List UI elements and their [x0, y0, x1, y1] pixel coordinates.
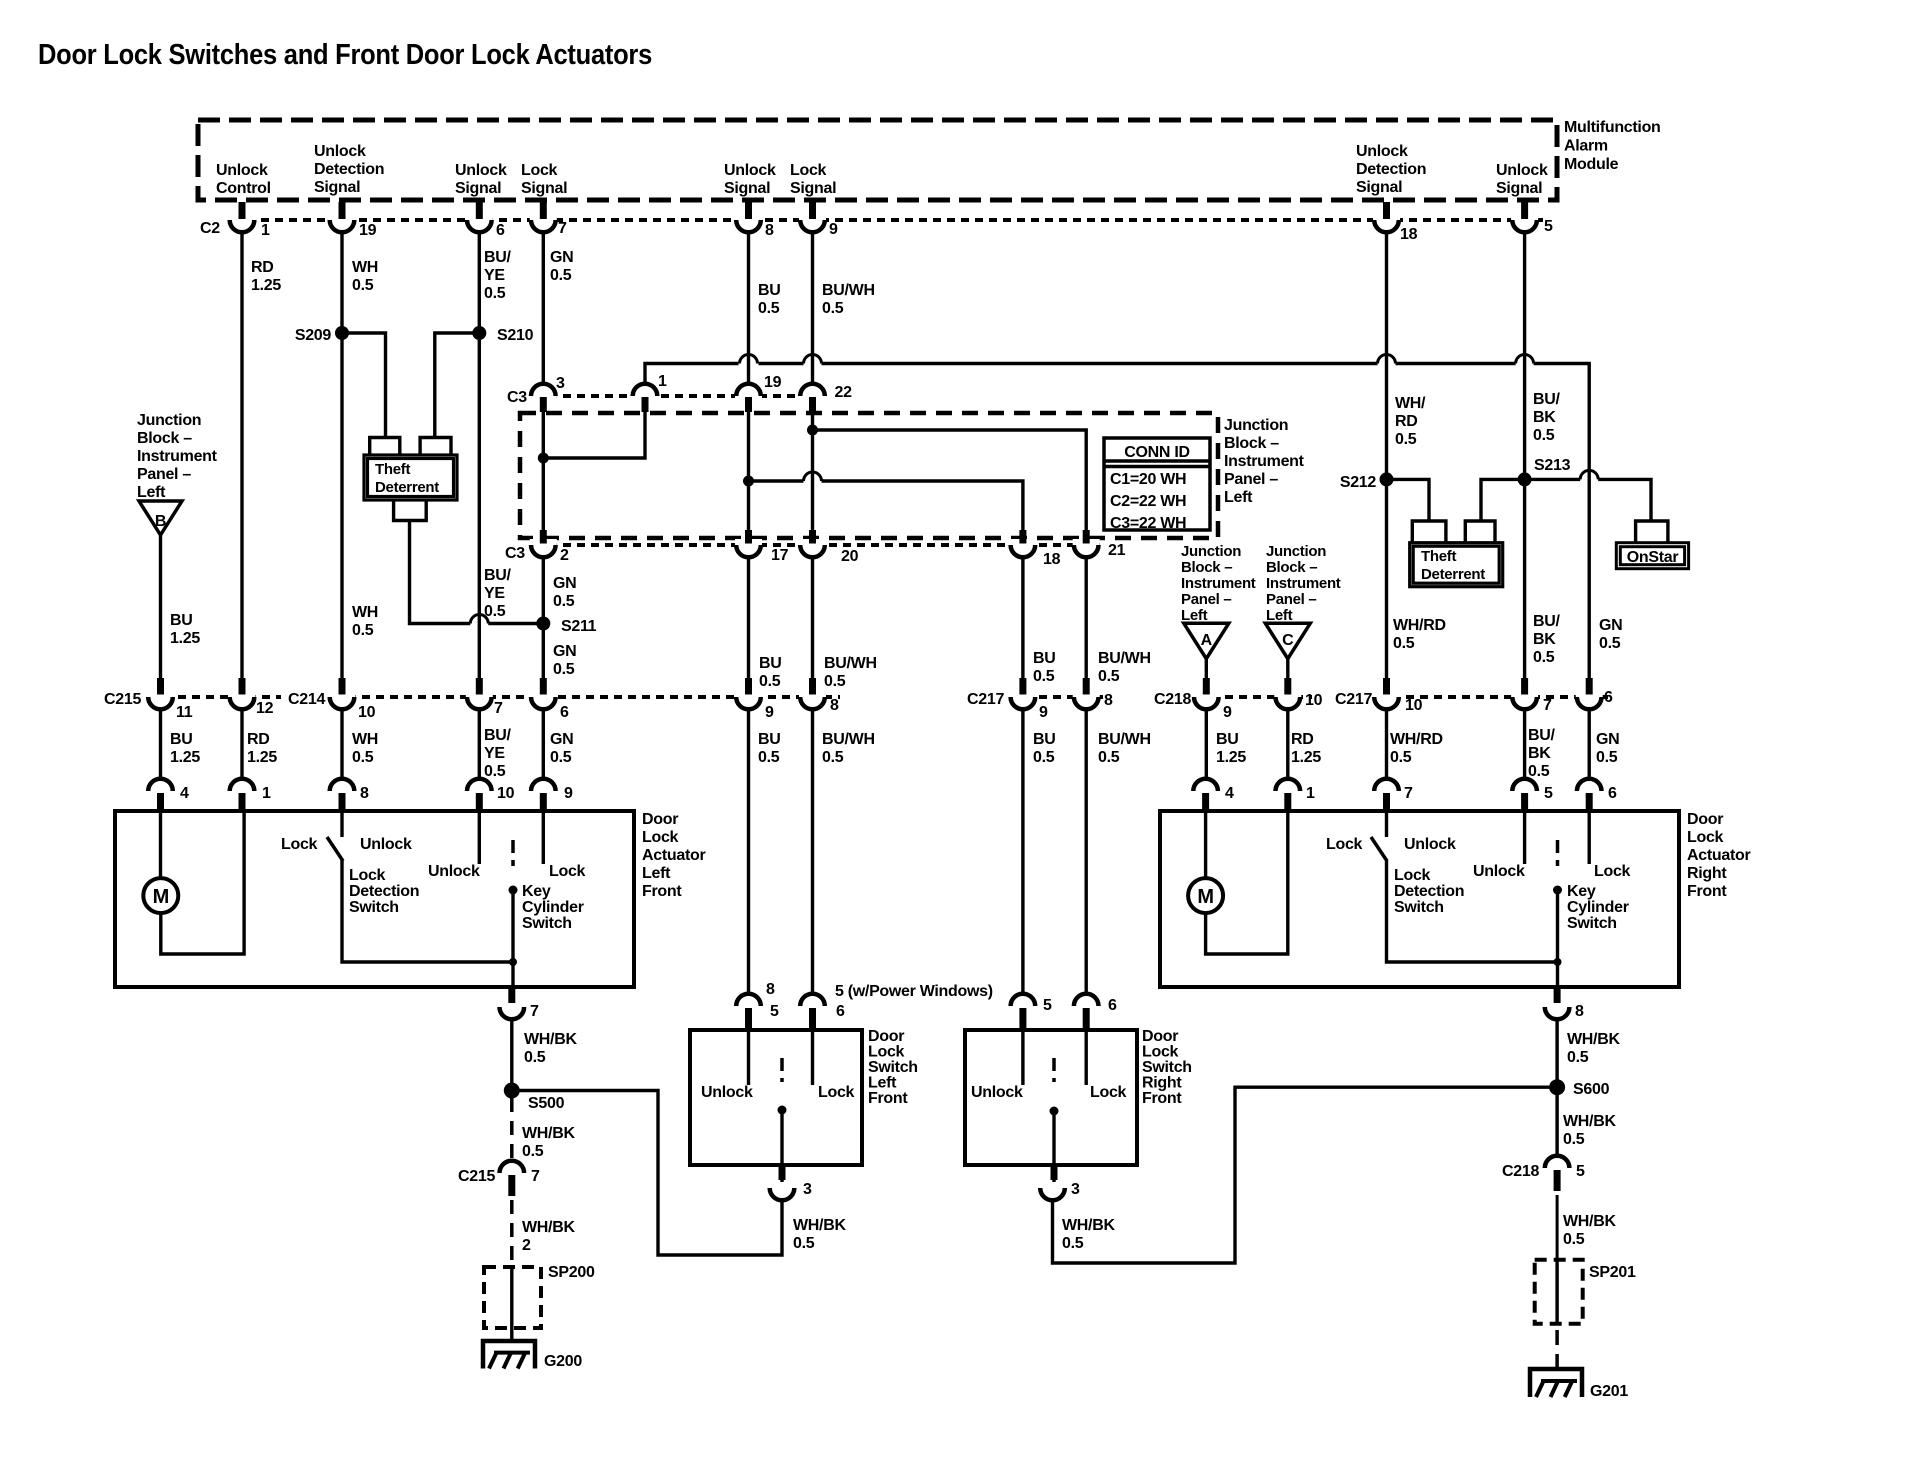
svg-text:11: 11 [176, 704, 193, 721]
label WH 0.5 [352, 731, 378, 766]
svg-text:GN0.5: GN0.5 [553, 575, 576, 610]
wire lock detection switch to key cylinder common left [342, 860, 513, 962]
label Lock Detection Switch right [1394, 867, 1464, 916]
svg-text:C3=22 WH: C3=22 WH [1110, 515, 1186, 532]
svg-text:C2: C2 [200, 220, 220, 237]
wire GN 0.5 from C2-7 to C3-3 [542, 232, 545, 386]
svg-text:S213: S213 [1534, 457, 1571, 474]
svg-text:Lock: Lock [281, 836, 318, 853]
splice pack SP200 dashed box [484, 1267, 541, 1328]
label C3 row 1 [507, 389, 527, 406]
svg-text:C215: C215 [104, 691, 141, 708]
label BU/YE 0.5 [484, 727, 512, 780]
svg-text:Lock: Lock [549, 863, 586, 880]
label Door Lock Actuator Right Front [1687, 811, 1750, 900]
label Unlock (blade right) [1404, 836, 1456, 853]
connector C2 pin 19 [329, 202, 377, 239]
wire BU 1.25 C218-9 to actuator right pin 4 [1205, 709, 1208, 780]
connector door lock switch left pin 3 [770, 1167, 812, 1200]
actuator left pin 4 [148, 779, 189, 810]
svg-text:S600: S600 [1573, 1081, 1610, 1098]
junction block grid C triangle [1265, 623, 1310, 658]
connector row3 pin 9 at x=1022.9 [1009, 678, 1048, 721]
svg-text:C3: C3 [507, 389, 527, 406]
connector row dotted line C218 [1197, 695, 1312, 699]
wire WH/BK 0.5 actuator right to S600 [1555, 1019, 1558, 1088]
connector row3 pin 10 at x=1287.8 [1274, 678, 1322, 709]
wire RD 1.25 from C2-1 to C215-12 [240, 232, 243, 691]
connector row3 pin 9 at x=748.5 [735, 678, 774, 721]
wire BU/YE 0.5 C214-7 to actuator left pin 10 [478, 709, 481, 780]
connector C3 row2 pin 21 [1073, 530, 1126, 559]
wire motor loop right [1206, 811, 1288, 954]
svg-text:22: 22 [835, 384, 853, 401]
label Lock (blade left) [281, 836, 318, 853]
svg-text:3: 3 [556, 375, 565, 392]
svg-text:6: 6 [1604, 689, 1613, 706]
svg-text:Unlock: Unlock [1404, 836, 1456, 853]
label C214 [288, 691, 325, 708]
connector actuator right pin 8 [1545, 989, 1584, 1020]
svg-text:7: 7 [1404, 785, 1413, 802]
svg-text:SP200: SP200 [548, 1264, 595, 1281]
connector C215 pin 7 [458, 1161, 540, 1196]
junction block grid B triangle [139, 501, 182, 535]
connector C2 pin 6 [466, 202, 505, 239]
svg-text:2: 2 [560, 547, 569, 564]
wire inside junction block dot to pin1 [543, 398, 645, 458]
svg-text:7: 7 [558, 220, 567, 237]
svg-text:G200: G200 [544, 1353, 582, 1370]
svg-text:GN0.5: GN0.5 [550, 731, 573, 766]
label Unlock Detection Signal [314, 143, 384, 196]
connector C218 pin 5 [1502, 1156, 1585, 1191]
wire S213 to OnStar cavity [1525, 470, 1651, 521]
junction block grid A triangle [1184, 623, 1229, 658]
svg-text:5: 5 [1576, 1163, 1585, 1180]
label WH/RD 0.5 [1390, 731, 1443, 766]
connector row3 pin 11 at x=160.5 [147, 678, 193, 721]
label BU 0.5 [758, 731, 781, 766]
label CONN ID [1124, 444, 1189, 461]
svg-text:M: M [1197, 886, 1213, 908]
label Unlock (blade left) [360, 836, 412, 853]
wire actuator right pin 7 to lock detection switch [1385, 811, 1388, 837]
svg-text:4: 4 [180, 785, 189, 802]
connector C3 row2 pin 20 [799, 530, 859, 565]
label BU/BK 0.5 below S213 [1533, 613, 1561, 666]
label Unlock Control [216, 162, 271, 197]
wire inside junction block pin3 to pin2 vertical [542, 398, 545, 541]
wire key cylinder common left [511, 890, 514, 962]
svg-text:C218: C218 [1154, 691, 1191, 708]
connector door lock switch left pin 6 [800, 994, 845, 1028]
wire S212 to theft deterrent right cavity 1 [1387, 479, 1430, 521]
wire WH/BK 0.5 S500 to C215-7 (dashed) [510, 1098, 514, 1160]
splice S500 [504, 1083, 565, 1113]
wire BU/WH 0.5 C217-8 to door lock switch right pin 6 [1084, 709, 1087, 995]
label Lock switch left [818, 1084, 855, 1101]
svg-text:C218: C218 [1502, 1163, 1539, 1180]
theft deterrent left cavity 1 [370, 438, 400, 456]
label C215 [104, 691, 141, 708]
wire GN 0.5 C214-6 to actuator left pin 9 [542, 709, 545, 780]
svg-text:G201: G201 [1590, 1383, 1628, 1400]
connector door lock switch left pin 5 [736, 994, 779, 1028]
door lock switch right front box [965, 1030, 1137, 1165]
motor M right actuator [1188, 878, 1223, 913]
key cylinder switch lever right (dashed) [1556, 840, 1560, 866]
label Unlock Signal (pin 5) [1496, 162, 1548, 197]
connector row3 pin 8 at x=812.5 [799, 678, 839, 714]
door lock actuator right front box [1160, 811, 1679, 987]
label SP201 [1589, 1264, 1636, 1281]
svg-text:Door Lock Switches and Front D: Door Lock Switches and Front Door Lock A… [38, 39, 652, 71]
lock detection switch blade right [1371, 837, 1387, 861]
label WH/BK 0.5 below actuator right [1567, 1031, 1620, 1066]
svg-text:C217: C217 [1335, 691, 1372, 708]
wire switch left lock contact [811, 1030, 814, 1085]
theft deterrent module left box [364, 455, 457, 500]
svg-text:8: 8 [765, 222, 774, 239]
wire BU/WH 0.5 C3-21 to C217-8 [1084, 557, 1087, 691]
label Lock Detection Switch left [349, 867, 419, 916]
wire WH/BK 0.5 C218-5 to SP201 [1556, 1195, 1559, 1260]
wire BU/BK 0.5 from C2-5 to C217-7 [1523, 232, 1526, 691]
wire BU/YE 0.5 from C2-6 to C214-7 [478, 232, 481, 691]
svg-text:BU0.5: BU0.5 [758, 282, 781, 317]
wire BU 0.5 C3-18 to C217-9 [1021, 557, 1024, 691]
connector row3 pin 6 at x=543.3 [530, 678, 569, 721]
wire BU 0.5 C3-17 to C214-9 [747, 557, 750, 691]
wire through SP201 [1555, 1260, 1558, 1324]
connector C3 row 1 dotted line [535, 394, 826, 398]
label WH 0.5 upper [352, 604, 378, 639]
wire BU 0.5 from C2-8 to C3-19 [747, 232, 750, 386]
wire GN 0.5 theft deterrent to S211 [410, 521, 544, 624]
connector row3 pin 9 at x=1206.3 [1193, 678, 1232, 721]
wire BU/WH 0.5 C3-20 to C214-8 [811, 557, 814, 691]
svg-text:4: 4 [1225, 785, 1234, 802]
label WH/BK 2 [522, 1219, 575, 1254]
connector row3 pin 10 at x=342 [329, 678, 376, 721]
connector row dotted line C214 [334, 695, 840, 699]
label BU/WH 0.5 right pair [1098, 650, 1151, 685]
actuator left pin 8 [330, 779, 369, 810]
svg-text:9: 9 [765, 704, 774, 721]
label C3=22 WH [1110, 515, 1186, 532]
label SP200 [548, 1264, 595, 1281]
node switch left pivot [778, 1106, 787, 1115]
connector C3 pin 19 [735, 374, 782, 412]
svg-text:C217: C217 [967, 691, 1004, 708]
svg-text:7: 7 [530, 1003, 539, 1020]
node junction dot on pin3 wire [538, 453, 549, 464]
label Theft Deterrent left [375, 461, 439, 496]
svg-text:5: 5 [1544, 785, 1553, 802]
svg-text:B: B [155, 513, 166, 530]
svg-text:6: 6 [496, 222, 505, 239]
label GN 0.5 above S211 [553, 575, 576, 610]
splice S209 [295, 326, 349, 344]
svg-text:GN0.5: GN0.5 [1596, 731, 1619, 766]
svg-text:8: 8 [1575, 1003, 1584, 1020]
label Lock Signal (pin 7) [521, 162, 567, 197]
svg-text:Unlock: Unlock [1473, 863, 1525, 880]
wire WH 0.5 from C2-19 to C214-10 [340, 232, 343, 691]
connector actuator left pin 7 [500, 989, 540, 1020]
svg-text:1: 1 [261, 222, 270, 239]
label GN 0.5 right column [1599, 617, 1622, 652]
wire key cylinder common to actuator right pin 8 [1556, 962, 1559, 1000]
label BU/BK 0.5 [1533, 391, 1561, 444]
switch right lever (dashed) [1052, 1058, 1056, 1082]
label BU 1.25 above C215 [170, 612, 200, 647]
connector door lock switch right pin 3 [1040, 1167, 1080, 1200]
svg-text:S500: S500 [528, 1095, 565, 1112]
wire BU 1.25 C215-11 to actuator left pin 4 [159, 709, 162, 780]
label Junction Block - Instrument Panel - Left (center) [1224, 417, 1305, 506]
connector C2 pin 1 [229, 202, 271, 239]
wire actuator right pin 5 unlock contact [1523, 811, 1526, 864]
svg-text:10: 10 [358, 704, 376, 721]
svg-text:C3: C3 [505, 545, 525, 562]
label BU 0.5 right pair [1033, 650, 1056, 685]
label Junction Block - Instrument Panel - Left (C) [1266, 543, 1341, 624]
node junction key cylinder / lock detection left [509, 958, 517, 966]
label Door Lock Switch Left Front [868, 1028, 918, 1107]
svg-text:7: 7 [494, 700, 503, 717]
label WH/BK 0.5 above SP201 [1563, 1213, 1616, 1248]
connector C2 pin 7 [530, 202, 567, 237]
label C2=22 WH [1110, 493, 1186, 510]
label C2 [200, 220, 220, 237]
wire inside junction block dot to pin18 [749, 472, 1023, 541]
wire actuator left pin 10 unlock contact [478, 811, 481, 864]
OnStar cavity [1636, 521, 1668, 543]
svg-text:OnStar: OnStar [1627, 549, 1679, 566]
wire RD 1.25 from C to C218-10 [1286, 659, 1289, 684]
svg-text:Lock: Lock [1090, 1084, 1127, 1101]
theft deterrent left cavity 2 [420, 438, 451, 456]
connector C3 row2 pin 17 [735, 530, 789, 564]
wire lock detection switch to key cylinder common right [1387, 860, 1558, 962]
label BU/YE 0.5 upper [484, 567, 512, 620]
label Multifunction Alarm Module [1564, 119, 1661, 173]
label Key Cylinder Switch left [522, 883, 584, 932]
label Lock Signal (pin 9) [790, 162, 836, 197]
connector row3 pin 7 at x=479.3 [466, 678, 503, 717]
svg-text:9: 9 [564, 785, 573, 802]
wire GN 0.5 long horizontal from C3-1 to C217-6 [645, 355, 1589, 685]
svg-text:18: 18 [1400, 226, 1418, 243]
label GN 0.5 [1596, 731, 1619, 766]
svg-text:10: 10 [497, 785, 515, 802]
wire through SP200 to G200 [510, 1267, 513, 1341]
label Theft Deterrent right [1421, 548, 1485, 583]
wire WH 0.5 C214-10 to actuator left pin 8 [340, 709, 343, 780]
label Unlock switch right [971, 1084, 1023, 1101]
ground G201 [1530, 1369, 1582, 1397]
svg-text:Lock: Lock [1326, 836, 1363, 853]
svg-text:5 (w/Power Windows): 5 (w/Power Windows) [835, 983, 993, 1000]
label C218 [1154, 691, 1191, 708]
label Key Cylinder Switch right [1567, 883, 1629, 932]
junction block instrument panel left dashed box [520, 413, 1218, 538]
splice S212 [1340, 472, 1394, 491]
connector row3 pin 10 at x=1386.5 [1373, 678, 1423, 714]
connector C2 pin 8 [735, 202, 774, 239]
splice S600 [1549, 1079, 1609, 1098]
label Door Lock Actuator Left Front [642, 811, 705, 900]
label RD 1.25 [1291, 731, 1321, 766]
CONN ID table box [1104, 438, 1210, 530]
wire from S210 to theft deterrent right cavity [435, 333, 480, 438]
svg-text:1: 1 [1306, 785, 1315, 802]
theft deterrent module right box [1410, 543, 1503, 587]
connector C3 pin 3 [530, 375, 565, 412]
svg-text:GN0.5: GN0.5 [553, 643, 576, 678]
wire BU 0.5 C217-9 to door lock switch right pin 5 [1021, 709, 1024, 995]
label WH/BK 0.5 switch left pin 3 [793, 1217, 846, 1252]
door lock actuator left front box [115, 811, 634, 987]
wire WH/RD 0.5 from C2-18 to C217-10 [1385, 232, 1388, 691]
wire BU/WH 0.5 from C2-9 to C3-22 [811, 232, 814, 386]
connector row dotted line C215 [150, 695, 281, 699]
svg-text:20: 20 [841, 548, 859, 565]
connector C2 pin 18 [1373, 202, 1418, 243]
actuator right pin 1 [1276, 779, 1316, 810]
wire actuator right pin 6 lock contact [1587, 811, 1590, 864]
ground G200 [483, 1341, 535, 1369]
svg-text:M: M [153, 886, 169, 908]
label OnStar [1627, 549, 1679, 566]
label RD 1.25 [251, 259, 281, 294]
svg-text:C1=20 WH: C1=20 WH [1110, 471, 1186, 488]
svg-text:BU0.5: BU0.5 [759, 655, 782, 690]
multifunction alarm module U1 dashed box [198, 120, 1557, 200]
svg-text:BU0.5: BU0.5 [1033, 650, 1056, 685]
svg-text:7: 7 [1543, 697, 1552, 714]
label Unlock Signal (pin 8) [724, 162, 776, 197]
label Lock contact left [549, 863, 586, 880]
splice pack SP201 dashed box [1535, 1260, 1583, 1324]
label C217 left [967, 691, 1004, 708]
label BU/YE 0.5 [484, 249, 512, 302]
connector row3 pin 6 at x=1589.2 [1576, 678, 1613, 709]
svg-text:5: 5 [1043, 997, 1052, 1014]
svg-text:UnlockSignal: UnlockSignal [455, 162, 507, 197]
svg-text:8: 8 [830, 697, 839, 714]
connector C2 dotted row [233, 218, 1545, 222]
wire RD 1.25 C218-10 to actuator right pin 1 [1286, 709, 1289, 780]
theft deterrent right cavity 2 [1465, 521, 1495, 543]
label Unlock Detection Signal (pin 18) [1356, 143, 1426, 196]
connector C2 pin 9 [799, 202, 838, 238]
connector row dotted line C217 right [1378, 695, 1608, 699]
label G201 [1590, 1383, 1628, 1400]
svg-text:S212: S212 [1340, 474, 1377, 491]
svg-text:SP201: SP201 [1589, 1264, 1636, 1281]
theft deterrent right cavity 1 [1412, 521, 1446, 543]
connector C2 pin 5 [1511, 202, 1553, 235]
wire inside junction block pin19 to pin17 vertical [747, 398, 750, 541]
svg-text:Unlock: Unlock [971, 1084, 1023, 1101]
svg-text:S209: S209 [295, 327, 332, 344]
wire from S209 to theft deterrent left cavity [342, 333, 386, 438]
svg-text:7: 7 [531, 1168, 540, 1185]
label Unlock contact left [428, 863, 480, 880]
wire actuator right pin 4 to motor [1204, 811, 1207, 878]
svg-text:17: 17 [771, 547, 789, 564]
svg-text:3: 3 [803, 1181, 812, 1198]
svg-text:18: 18 [1043, 551, 1061, 568]
label C1=20 WH [1110, 471, 1186, 488]
svg-text:Lock: Lock [818, 1084, 855, 1101]
svg-text:6: 6 [836, 1003, 845, 1020]
actuator right pin 4 [1193, 779, 1234, 810]
label BU 0.5 left pair [759, 655, 782, 690]
door lock switch left front box [690, 1030, 862, 1165]
actuator left pin 10 [467, 779, 515, 810]
label GN 0.5 [550, 249, 573, 284]
svg-text:A: A [1201, 632, 1213, 649]
wire inside junction block pin22 to pin20 vertical [811, 398, 814, 541]
label WH/BK 0.5 below actuator left [524, 1031, 577, 1066]
connector door lock switch right pin 6 [1074, 994, 1117, 1028]
lock detection switch blade left [327, 837, 343, 861]
svg-text:Unlock: Unlock [360, 836, 412, 853]
label BU 0.5 [758, 282, 781, 317]
label WH/BK 0.5 above C218-5 [1563, 1113, 1616, 1148]
connector row3 pin 7 at x=1524.6 [1511, 678, 1552, 714]
svg-text:6: 6 [1108, 997, 1117, 1014]
node junction key cylinder / lock detection right [1554, 958, 1562, 966]
svg-text:10: 10 [1405, 697, 1423, 714]
wire WH/BK 2 C215-7 to SP200 (dashed) [510, 1200, 514, 1267]
label GN 0.5 [550, 731, 573, 766]
actuator left pin 1 [230, 779, 271, 810]
svg-text:GN0.5: GN0.5 [550, 249, 573, 284]
label BU/WH 0.5 [822, 731, 875, 766]
svg-text:UnlockSignal: UnlockSignal [1496, 162, 1548, 197]
connector row dotted line C217 left [1011, 695, 1104, 699]
wire switch right common to pin 3 [1052, 1111, 1055, 1182]
wire BU 1.25 from A to C218-9 [1205, 659, 1208, 684]
label BU/WH 0.5 [1098, 731, 1151, 766]
connector C3 row2 pin 2 [530, 530, 569, 564]
label Lock switch right [1090, 1084, 1127, 1101]
label BU/WH 0.5 [822, 282, 875, 317]
connector C3 row 2 dotted line [535, 543, 1100, 547]
svg-text:S210: S210 [497, 327, 534, 344]
wire WH/BK 0.5 actuator left to S500 [510, 1019, 513, 1091]
wire BU/BK 0.5 C217-7 to actuator right pin 5 [1523, 709, 1526, 780]
connector C3 pin 1 [632, 373, 668, 412]
switch left lever (dashed) [780, 1058, 784, 1082]
svg-text:C215: C215 [458, 1168, 495, 1185]
label Unlock contact right [1473, 863, 1525, 880]
svg-text:BU0.5: BU0.5 [758, 731, 781, 766]
svg-text:CONN ID: CONN ID [1124, 444, 1189, 461]
svg-text:9: 9 [829, 221, 838, 238]
node junction dot on pin22 wire [807, 425, 818, 436]
wire switch right unlock contact [1021, 1030, 1024, 1085]
splice S210 [472, 326, 533, 344]
label WH 0.5 [352, 259, 378, 294]
actuator right pin 6 [1577, 779, 1617, 810]
svg-text:12: 12 [256, 700, 274, 717]
